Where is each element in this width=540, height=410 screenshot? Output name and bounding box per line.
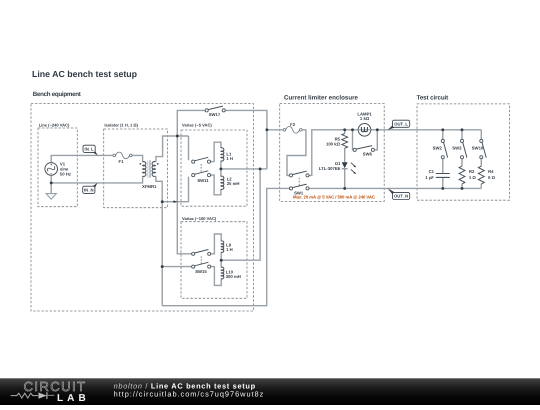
- svg-text:Isolator (1 H, 1 Ω): Isolator (1 H, 1 Ω): [104, 122, 138, 127]
- svg-text:100 kΩ: 100 kΩ: [326, 142, 341, 147]
- wire N rail SW1 to test circuit: [309, 187, 481, 189]
- svg-text:SW11: SW11: [197, 178, 209, 183]
- node flag IN_N: [83, 183, 98, 194]
- svg-text:LTL-307EE: LTL-307EE: [319, 166, 341, 171]
- inductor L10: [221, 267, 241, 279]
- junction R2 branch bottom: [461, 187, 464, 190]
- junction V1 neutral / ground: [50, 181, 53, 184]
- wire D1 to N rail: [344, 169, 346, 189]
- junction R5 top on L rail: [343, 128, 346, 131]
- voltage source V1: [45, 161, 71, 176]
- node flag IN_L: [83, 145, 98, 155]
- wire L10 top lead: [220, 260, 222, 267]
- wire SW11 lower bracket to L2: [211, 175, 221, 195]
- wire R5 to D1: [344, 148, 346, 162]
- wire V1 ground stem: [50, 183, 52, 194]
- svg-text:http://circuitlab.com/cs7uq976: http://circuitlab.com/cs7uq976wut8z: [114, 389, 264, 398]
- svg-text:LAB: LAB: [57, 393, 87, 404]
- wire XFMR1 primary bottom to V1 (IN_N): [51, 175, 142, 183]
- wire F2 down to SW1 upper pole: [287, 130, 306, 176]
- svg-text:Bench equipment: Bench equipment: [33, 91, 81, 98]
- node flag OUT_N: [388, 188, 410, 199]
- svg-text:IN_L: IN_L: [85, 146, 95, 151]
- switch SW2: [433, 139, 448, 158]
- wire SW15 lower bracket to L10: [211, 267, 221, 286]
- wire midpoint drop to variac100: [221, 169, 260, 260]
- svg-text:CIRCUIT: CIRCUIT: [24, 379, 86, 394]
- wire junction to F2: [267, 129, 283, 131]
- wire SW6 bypass left: [352, 130, 354, 150]
- svg-text:Current limiter enclosure: Current limiter enclosure: [284, 94, 359, 101]
- svg-text:SW6: SW6: [363, 152, 373, 157]
- wire L feed vertical to SW15: [177, 136, 191, 254]
- svg-text:Line AC bench test setup: Line AC bench test setup: [32, 69, 138, 79]
- wire XFMR1 secondary bottom N vertical: [156, 176, 162, 306]
- lamp LAMP1: [357, 111, 372, 136]
- junction C1 branch bottom: [441, 187, 444, 190]
- wire XFMR1 secondary top to node bus: [156, 136, 189, 162]
- svg-text:Line (~240 VAC): Line (~240 VAC): [39, 122, 70, 127]
- svg-text:1 Ω: 1 Ω: [469, 175, 477, 180]
- svg-text:1 H: 1 H: [226, 156, 233, 161]
- svg-text:50 Hz: 50 Hz: [60, 171, 71, 176]
- svg-text:1 µF: 1 µF: [425, 175, 434, 180]
- svg-text:SW2: SW2: [433, 145, 443, 150]
- switch SW11 (dual pole): [192, 157, 211, 183]
- svg-text:Variac (~5 VAC): Variac (~5 VAC): [182, 123, 212, 128]
- svg-text:6 Ω: 6 Ω: [488, 175, 496, 180]
- switch SW1 (dual pole): [289, 171, 309, 196]
- wire L2 top lead: [220, 169, 222, 177]
- svg-text:XFMR1: XFMR1: [142, 184, 157, 189]
- fuse F1: [113, 152, 132, 164]
- Variac ~5 VAC box: [181, 123, 247, 207]
- wire SW11 upper bracket to L1: [211, 142, 221, 161]
- wire SW6 bypass right: [375, 130, 377, 150]
- junction N bus / SW15 lower: [161, 265, 164, 268]
- crossing arrow mark: [173, 200, 177, 203]
- wire L1 bottom lead: [220, 161, 222, 169]
- wire SW17 left drop: [177, 110, 205, 136]
- Variac ~100 VAC box: [181, 216, 247, 298]
- wire SW3 branch stubs: [461, 130, 463, 140]
- wire V1 top to F1 (IN_L): [51, 155, 112, 162]
- wire SW11 lower to N bus: [162, 177, 188, 202]
- junction SW2 branch top: [441, 128, 444, 131]
- svg-text:25 mH: 25 mH: [227, 181, 240, 186]
- Bench equipment enclosure box: [31, 104, 254, 311]
- switch SW17: [205, 106, 225, 117]
- Test circuit box: [417, 104, 510, 200]
- junction L9-L10 midpoint tap: [220, 259, 223, 262]
- svg-text:Variac (~100 VAC): Variac (~100 VAC): [182, 216, 217, 221]
- Isolator box: [104, 122, 168, 207]
- svg-text:OUT_N: OUT_N: [394, 193, 408, 198]
- switch SW6: [353, 146, 374, 157]
- inductor L1: [221, 148, 233, 161]
- resistor R2: [459, 166, 476, 184]
- svg-text:SW15: SW15: [195, 269, 207, 274]
- wire SW2 branch stubs: [442, 130, 444, 140]
- wire R5 top lead: [344, 130, 346, 134]
- wire SW1 upper pole return up to rail: [309, 130, 358, 176]
- svg-text:IN_N: IN_N: [84, 187, 94, 192]
- inductor L9: [221, 241, 233, 252]
- ground: [46, 194, 56, 200]
- switch SW10: [472, 139, 486, 158]
- fuse F2: [283, 122, 302, 133]
- junction variac output bus: [259, 167, 262, 170]
- switch SW15 (dual pole): [192, 250, 211, 275]
- resistor R5: [326, 133, 348, 148]
- svg-text:Test circuit: Test circuit: [417, 94, 449, 101]
- svg-text:1 kΩ: 1 kΩ: [360, 116, 370, 121]
- junction L1-L2 midpoint tap: [219, 167, 222, 170]
- junction SW3 branch top: [461, 128, 464, 131]
- wire L9 bottom lead: [220, 252, 222, 260]
- inductor L2: [221, 176, 240, 189]
- wire SW17 right to current limiter input: [225, 110, 267, 168]
- svg-text:SW17: SW17: [209, 112, 221, 117]
- LED D1: [319, 161, 356, 174]
- svg-text:F2: F2: [290, 122, 296, 127]
- wire bottom rail to SW1: [162, 188, 289, 305]
- svg-text:Max: 20 mA @ 5 VAC / 500 mA @: Max: 20 mA @ 5 VAC / 500 mA @ 240 VAC: [293, 194, 375, 199]
- svg-text:R2: R2: [469, 169, 475, 174]
- svg-text:1 H: 1 H: [226, 247, 233, 252]
- svg-text:F1: F1: [119, 159, 125, 164]
- junction D1 bottom on N rail: [343, 187, 346, 190]
- transformer XFMR1: [140, 160, 159, 189]
- junction N bus / SW11 lower: [161, 200, 164, 203]
- svg-text:OUT_L: OUT_L: [394, 121, 408, 126]
- capacitor C1: [425, 169, 449, 180]
- CircuitLab logo: [11, 379, 87, 404]
- svg-text:R4: R4: [488, 169, 494, 174]
- resistor R4: [478, 166, 495, 184]
- wire variac5 midpoint bus: [221, 168, 267, 170]
- Line (~240 VAC) box: [38, 122, 77, 206]
- Current limiter enclosure box: [280, 104, 385, 202]
- wire SW11 upper feed: [188, 136, 190, 160]
- svg-text:SW3: SW3: [452, 145, 462, 150]
- junction bench L output: [265, 128, 268, 131]
- junction SW6 right on L rail: [376, 128, 379, 131]
- wire N to SW15 lower: [162, 266, 191, 268]
- wire F1 to XFMR1 primary top: [133, 155, 143, 162]
- wire SW15 upper bracket to L9: [211, 234, 221, 254]
- node flag OUT_L: [388, 120, 410, 130]
- junction SW6 left on L rail: [351, 128, 354, 131]
- wire SW10 branch stubs: [480, 130, 482, 140]
- svg-text:C1: C1: [429, 169, 435, 174]
- svg-text:300 mH: 300 mH: [226, 274, 241, 279]
- switch SW3: [452, 139, 467, 158]
- svg-text:SW10: SW10: [472, 145, 484, 150]
- junction secondary-top / SW17 feed: [176, 135, 179, 138]
- wire lamp right rail to test circuit: [371, 129, 481, 131]
